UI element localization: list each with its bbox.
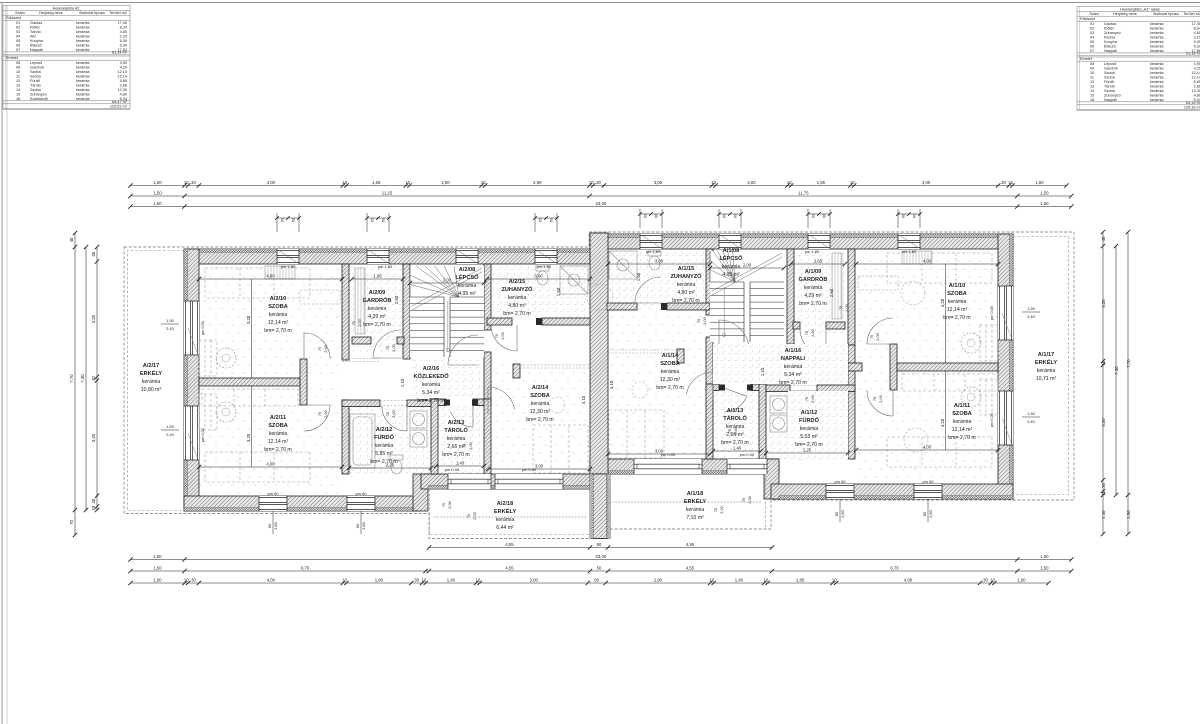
partition tarolo r top right seg	[708, 384, 719, 391]
svg-text:3,00: 3,00	[654, 180, 663, 185]
window top dims 60/60 left	[534, 213, 536, 232]
left dims inner	[96, 247, 98, 510]
svg-text:pm 0,00: pm 0,00	[990, 413, 994, 427]
svg-text:kerámia: kerámia	[76, 66, 90, 70]
svg-text:1,50: 1,50	[1027, 411, 1036, 416]
svg-text:A/2/17: A/2/17	[143, 363, 159, 369]
svg-text:2,00: 2,00	[810, 328, 815, 336]
svg-text:kerámia: kerámia	[531, 401, 550, 407]
window A/2/09 top	[367, 249, 389, 264]
svg-text:12,30 m²: 12,30 m²	[660, 377, 681, 383]
svg-text:Fürdő: Fürdő	[30, 79, 40, 83]
svg-text:bm= 2,70 m: bm= 2,70 m	[503, 311, 531, 317]
svg-text:kerámia: kerámia	[76, 92, 90, 96]
partition szoba10r/szoba11r	[897, 363, 998, 371]
svg-text:2,60: 2,60	[394, 295, 399, 304]
inner dim A/1/14	[608, 453, 710, 455]
svg-text:5,39: 5,39	[1194, 40, 1200, 44]
svg-text:bm= 2,70 m: bm= 2,70 m	[264, 328, 292, 334]
svg-text:SZOBA: SZOBA	[268, 423, 288, 429]
svg-text:09: 09	[16, 66, 20, 70]
svg-text:A/2/08: A/2/08	[459, 267, 475, 273]
partition tarolo left	[431, 399, 438, 474]
window A/1/09 top	[808, 234, 830, 249]
svg-text:A/1/13: A/1/13	[727, 408, 743, 414]
desk A/1/10 right	[980, 325, 998, 361]
svg-text:2,66: 2,66	[120, 84, 127, 88]
svg-text:6,70: 6,70	[890, 565, 899, 570]
door A/2/12 furdo	[406, 406, 408, 431]
svg-text:kerámia: kerámia	[508, 295, 527, 301]
svg-text:kerámia: kerámia	[76, 21, 90, 25]
top dimension row detailed	[131, 185, 1067, 187]
left dims 730	[85, 247, 87, 510]
svg-text:pm 0,00: pm 0,00	[201, 321, 205, 335]
svg-text:kerámia: kerámia	[953, 419, 972, 425]
svg-text:Közlekedő: Közlekedő	[30, 97, 48, 101]
svg-text:01: 01	[16, 21, 20, 25]
svg-text:A/2/12: A/2/12	[376, 427, 392, 433]
svg-text:5,53 m²: 5,53 m²	[800, 434, 818, 440]
svg-text:10: 10	[342, 577, 347, 582]
shower tray A/1/15	[609, 251, 637, 279]
door A/1/15 shower	[635, 302, 661, 304]
svg-text:7,30: 7,30	[80, 374, 85, 383]
svg-text:03: 03	[1090, 31, 1094, 35]
closet A/2/10 top	[265, 266, 295, 279]
svg-text:Helyiséglista „A1” lakás: Helyiséglista „A1” lakás	[1120, 7, 1160, 11]
svg-text:07: 07	[16, 48, 20, 52]
carpet row A/1/11	[902, 374, 998, 391]
inner dim A/1/12	[766, 452, 848, 454]
svg-text:SZOBA: SZOBA	[947, 291, 967, 297]
inner dim A/1/13	[713, 450, 761, 452]
stairs A/1/08	[710, 251, 784, 342]
insulation right	[1009, 234, 1013, 499]
svg-text:Konyha: Konyha	[1104, 40, 1118, 44]
svg-text:5,85: 5,85	[120, 79, 127, 83]
svg-text:Lépcső: Lépcső	[30, 61, 42, 65]
terrace window A/2/14	[495, 474, 563, 489]
exterior wall right	[998, 234, 1013, 499]
inner dim A/2/13	[436, 465, 484, 467]
svg-text:30: 30	[91, 251, 96, 256]
label window A/2/11 left	[166, 424, 175, 437]
svg-text:2,00: 2,00	[875, 332, 880, 340]
svg-text:kerámia: kerámia	[1150, 89, 1164, 93]
svg-text:ZUHANYZÓ: ZUHANYZÓ	[670, 272, 702, 280]
dryer A/2/12	[410, 430, 427, 447]
nappali floor A/1/16	[788, 391, 848, 459]
svg-text:40: 40	[1101, 236, 1106, 241]
svg-text:12: 12	[1090, 80, 1094, 84]
window top dims 60/60 right	[639, 209, 641, 228]
desk A/1/10	[858, 276, 898, 290]
svg-text:pm 1,80: pm 1,80	[537, 264, 552, 269]
svg-text:TÁROLÓ: TÁROLÓ	[723, 414, 747, 422]
svg-text:WC: WC	[30, 34, 37, 38]
svg-text:61,18 m²: 61,18 m²	[1186, 52, 1200, 56]
svg-text:Helyiség neve: Helyiség neve	[39, 11, 63, 15]
ottoman A/1/14	[632, 382, 648, 398]
svg-text:10: 10	[342, 180, 347, 185]
svg-text:4,00: 4,00	[922, 180, 931, 185]
svg-text:2,66: 2,66	[1194, 85, 1200, 89]
partition szoba11r/furdo r	[848, 345, 855, 459]
svg-text:1,50: 1,50	[1040, 190, 1049, 195]
svg-text:15: 15	[1090, 93, 1094, 97]
window top dims 60/60 left	[366, 213, 368, 232]
svg-text:10: 10	[184, 180, 189, 185]
svg-text:kerámia: kerámia	[1150, 35, 1164, 39]
svg-text:Tároló: Tároló	[30, 84, 41, 88]
inner dim A/2/12	[349, 467, 431, 469]
label window A/1/10 right	[1027, 306, 1036, 319]
svg-text:10,80 m²: 10,80 m²	[141, 387, 162, 393]
door A/2/14	[487, 387, 489, 414]
window A/1/10 right wall	[998, 286, 1013, 340]
svg-text:64,15 m²: 64,15 m²	[1186, 101, 1200, 105]
inner dim A/1/15	[608, 263, 710, 265]
terrace outline A/2/17	[128, 251, 185, 511]
svg-text:Szoba: Szoba	[1104, 71, 1116, 75]
svg-text:4,00: 4,00	[923, 444, 932, 449]
svg-text:1,50: 1,50	[1040, 201, 1049, 206]
svg-text:4,95 m²: 4,95 m²	[458, 291, 476, 297]
svg-text:Szám: Szám	[1089, 12, 1099, 16]
svg-text:4,00: 4,00	[904, 577, 913, 582]
window A/2/15 top	[535, 249, 557, 264]
svg-text:NAPPALI: NAPPALI	[781, 356, 806, 362]
svg-text:A/1/10: A/1/10	[949, 283, 965, 289]
svg-text:30: 30	[1001, 180, 1006, 185]
svg-text:pm 1,80: pm 1,80	[646, 249, 661, 254]
svg-text:1,50: 1,50	[153, 190, 162, 195]
bottom dimension row middle	[131, 570, 1072, 572]
partition szoba10/szoba11	[199, 378, 300, 386]
inner dim A/1/09	[791, 263, 845, 265]
svg-text:ZUHANYZÓ: ZUHANYZÓ	[501, 285, 533, 293]
svg-text:Tároló: Tároló	[1104, 85, 1115, 89]
svg-text:2,00: 2,00	[733, 426, 738, 434]
gardrob opening dashes	[342, 358, 380, 360]
exterior wall top left unit	[184, 249, 590, 264]
corridor pier A/2	[300, 359, 307, 405]
svg-text:08: 08	[1090, 62, 1094, 66]
svg-text:ERKÉLY: ERKÉLY	[140, 369, 162, 377]
svg-text:1,50: 1,50	[1040, 565, 1049, 570]
svg-text:5,39: 5,39	[120, 43, 127, 47]
svg-text:SZOBA: SZOBA	[530, 393, 550, 399]
svg-text:bm= 2,70 m: bm= 2,70 m	[799, 301, 827, 307]
svg-text:3,20: 3,20	[91, 314, 96, 323]
dryer A/1/12	[770, 415, 787, 432]
inner dim A/2/14	[488, 468, 590, 470]
svg-text:14: 14	[1090, 89, 1094, 93]
szoba14 opening dashes	[520, 364, 590, 366]
exterior wall bottom left B	[421, 474, 590, 489]
svg-text:8,24: 8,24	[120, 25, 127, 29]
svg-text:Szoba: Szoba	[30, 70, 42, 74]
partition zuh bottom left seg1	[487, 318, 512, 325]
desk A/2/11 left	[199, 394, 217, 430]
inner dim A/1/08	[710, 267, 784, 269]
svg-text:kerámia: kerámia	[142, 379, 161, 385]
svg-text:06: 06	[16, 43, 20, 47]
svg-text:kerámia: kerámia	[76, 30, 90, 34]
svg-text:13: 13	[16, 84, 20, 88]
svg-text:ERKÉLY: ERKÉLY	[684, 497, 706, 505]
svg-text:bm= 2,70 m: bm= 2,70 m	[442, 452, 470, 458]
svg-text:4,10: 4,10	[581, 395, 586, 404]
door A/1/11	[892, 390, 894, 416]
label window A/2/10 left	[166, 318, 175, 331]
svg-text:02: 02	[1090, 26, 1094, 30]
pier szoba14 r	[677, 349, 684, 363]
svg-text:4,29 m²: 4,29 m²	[804, 293, 822, 299]
svg-text:02: 02	[16, 25, 20, 29]
door A/2/11	[304, 404, 330, 406]
svg-text:1,65: 1,65	[372, 180, 381, 185]
svg-text:Zuhanyzó: Zuhanyzó	[1104, 31, 1121, 35]
svg-text:2,15: 2,15	[1194, 35, 1200, 39]
svg-text:16: 16	[16, 97, 20, 101]
left dims outer	[74, 233, 76, 535]
inner dim A/2/15	[487, 278, 590, 280]
furniture row A/1/10	[887, 253, 992, 283]
desk A/1/11 right	[980, 379, 998, 415]
svg-text:FÜRDŐ: FÜRDŐ	[374, 434, 395, 441]
svg-text:kerámia: kerámia	[76, 61, 90, 65]
partition szoba11/furdo	[342, 400, 349, 474]
inner dim A/2/10	[199, 278, 342, 280]
svg-text:kerámia: kerámia	[447, 436, 466, 442]
svg-text:kerámia: kerámia	[269, 431, 288, 437]
svg-text:2,00: 2,00	[747, 180, 756, 185]
window stairs A/1 top	[719, 234, 741, 249]
svg-text:LÉPCSŐ: LÉPCSŐ	[719, 254, 743, 262]
door A/1/12 furdo	[790, 390, 817, 392]
svg-text:A/2/16: A/2/16	[423, 366, 439, 372]
corridor pier A/1	[890, 344, 897, 390]
svg-text:Gardrob: Gardrob	[1104, 67, 1118, 71]
partition tarolo r top left seg	[751, 384, 766, 391]
svg-text:A/1/11: A/1/11	[954, 403, 970, 409]
svg-text:Terület m2: Terület m2	[1183, 12, 1200, 16]
svg-text:1,10: 1,10	[1101, 510, 1106, 519]
door A/2/15 shower	[516, 325, 518, 351]
svg-text:5,39: 5,39	[1194, 44, 1200, 48]
insulation top right	[590, 234, 1013, 238]
svg-text:kerámia: kerámia	[1150, 31, 1164, 35]
svg-text:10: 10	[589, 180, 594, 185]
office chair A/1/10	[961, 333, 981, 353]
svg-text:10: 10	[990, 577, 995, 582]
svg-text:A/1/12: A/1/12	[801, 410, 817, 416]
svg-text:kerámia: kerámia	[76, 97, 90, 101]
partition stair r/tarolo r area	[706, 337, 713, 391]
svg-text:5,34 m²: 5,34 m²	[422, 390, 440, 396]
svg-text:4,80: 4,80	[1194, 93, 1200, 97]
door A/2/13 tarolo	[472, 403, 474, 427]
svg-text:80: 80	[355, 523, 360, 528]
exterior wall left	[184, 249, 199, 511]
svg-text:4,95: 4,95	[120, 61, 127, 65]
svg-text:kerámia: kerámia	[1150, 85, 1164, 89]
svg-text:2,00: 2,00	[447, 500, 452, 508]
svg-text:Lépcső: Lépcső	[1104, 62, 1116, 66]
svg-text:Szoba: Szoba	[30, 75, 42, 79]
svg-text:10: 10	[850, 180, 855, 185]
svg-text:30: 30	[983, 577, 988, 582]
terrace door A/1/13	[727, 459, 767, 474]
svg-text:bm= 2,70 m: bm= 2,70 m	[948, 435, 976, 441]
room list table A2	[3, 6, 130, 110]
svg-text:Burkolat típusa: Burkolat típusa	[79, 11, 105, 15]
exterior wall bottom right C	[771, 484, 1013, 499]
exterior wall left step	[413, 474, 428, 511]
svg-text:Gardrob: Gardrob	[30, 66, 44, 70]
svg-text:2,90: 2,90	[533, 180, 542, 185]
svg-text:kerámia: kerámia	[76, 34, 90, 38]
svg-text:kerámia: kerámia	[722, 264, 741, 270]
partition gardrob r bottom seg1	[793, 322, 800, 329]
svg-text:Zuhanyzó: Zuhanyzó	[1104, 93, 1121, 97]
door jambs	[444, 400, 450, 406]
svg-text:14: 14	[16, 88, 20, 92]
svg-text:12,14 m²: 12,14 m²	[947, 307, 968, 313]
svg-text:pm 60: pm 60	[834, 479, 846, 484]
svg-text:10: 10	[710, 577, 715, 582]
svg-text:4,00: 4,00	[266, 461, 275, 466]
svg-text:kerámia: kerámia	[800, 426, 819, 432]
toilet A/2/12	[390, 455, 403, 474]
svg-text:4,29: 4,29	[1194, 67, 1200, 71]
svg-text:Nappali: Nappali	[1104, 49, 1117, 53]
svg-text:10: 10	[832, 577, 837, 582]
svg-text:11,25: 11,25	[382, 190, 393, 195]
ottoman A/2/14	[549, 397, 565, 413]
partition pier door szoba11r	[848, 363, 862, 371]
svg-text:1,50: 1,50	[1027, 306, 1036, 311]
svg-text:2,00: 2,00	[441, 180, 450, 185]
svg-text:pm 1,80: pm 1,80	[378, 264, 393, 269]
svg-text:bm= 2,70 m: bm= 2,70 m	[417, 398, 445, 404]
svg-text:1,40: 1,40	[456, 460, 465, 465]
furdo r door dashes	[790, 385, 817, 387]
svg-text:61,14 m²: 61,14 m²	[112, 51, 128, 55]
shower cabin A/1/12	[822, 399, 847, 453]
furniture row A/2/10	[205, 268, 310, 298]
svg-text:kerámia: kerámia	[76, 79, 90, 83]
svg-text:11: 11	[16, 75, 20, 79]
svg-text:5,34 m²: 5,34 m²	[784, 372, 802, 378]
svg-text:A/1/08: A/1/08	[723, 248, 739, 254]
svg-text:kerámia: kerámia	[1150, 62, 1164, 66]
svg-text:23,00: 23,00	[596, 554, 607, 559]
svg-text:kerámia: kerámia	[76, 84, 90, 88]
inner dim A/1/11	[856, 449, 998, 451]
svg-text:kerámia: kerámia	[1150, 76, 1164, 80]
svg-text:4,29: 4,29	[120, 66, 127, 70]
svg-text:1,80: 1,80	[273, 521, 278, 530]
svg-text:1,65: 1,65	[373, 273, 382, 278]
svg-text:11: 11	[1090, 76, 1094, 80]
partition furdo top	[342, 400, 380, 407]
svg-text:Konyha: Konyha	[30, 39, 44, 43]
carpet row A/2/11	[202, 389, 298, 406]
partition furdo r top seg2	[766, 385, 790, 392]
szoba14 r opening dashes	[608, 349, 677, 351]
svg-text:12,14 m²: 12,14 m²	[268, 320, 289, 326]
svg-text:4,65: 4,65	[1194, 31, 1200, 35]
svg-text:A/1/15: A/1/15	[678, 266, 694, 272]
svg-text:A/1/16: A/1/16	[785, 348, 801, 354]
svg-text:Szoba: Szoba	[1104, 76, 1116, 80]
svg-text:kerámia: kerámia	[1150, 71, 1164, 75]
svg-text:50: 50	[597, 542, 602, 547]
svg-text:1,40: 1,40	[447, 577, 456, 582]
room list table A1	[1077, 7, 1200, 111]
window A/1/15 top	[640, 234, 662, 249]
svg-text:pm 0,00: pm 0,00	[661, 452, 676, 457]
svg-text:2,00: 2,00	[743, 262, 752, 267]
svg-text:12,14: 12,14	[1191, 76, 1200, 80]
svg-text:07: 07	[1090, 49, 1094, 53]
svg-text:Helyiséglista A2: Helyiséglista A2	[53, 6, 80, 10]
svg-text:10: 10	[711, 180, 716, 185]
furdo door dashes	[380, 400, 407, 402]
svg-text:TÁROLÓ: TÁROLÓ	[444, 426, 468, 434]
svg-text:7,70: 7,70	[1126, 359, 1131, 368]
svg-text:Szoba: Szoba	[1104, 89, 1116, 93]
svg-text:64,47 m²: 64,47 m²	[112, 100, 128, 104]
partition gardrob r/stairs	[787, 249, 794, 344]
window A/2/10 left wall	[184, 301, 199, 355]
svg-text:pm 1,80: pm 1,80	[281, 264, 296, 269]
party terrace insul left	[590, 474, 593, 539]
svg-text:08: 08	[16, 61, 20, 65]
terrace tile edge A/2/18	[434, 516, 586, 518]
terrace tile edge A/1/18	[612, 501, 762, 503]
svg-text:kerámia: kerámia	[1150, 26, 1164, 30]
svg-text:4,00: 4,00	[923, 258, 932, 263]
bottom dimension row terraces	[429, 547, 772, 549]
svg-text:Étkező: Étkező	[1104, 43, 1116, 48]
partition gardrob r bottom seg2	[826, 322, 845, 329]
svg-text:7,70: 7,70	[69, 374, 74, 383]
partition furdo r top	[817, 385, 855, 392]
svg-text:3,00: 3,00	[534, 273, 543, 278]
svg-text:2,00: 2,00	[323, 344, 328, 352]
window top dims 60/60 right	[807, 209, 809, 228]
washing machine A/2/12	[410, 411, 427, 428]
svg-text:kerámia: kerámia	[368, 306, 387, 312]
svg-text:2,00: 2,00	[844, 303, 849, 311]
svg-text:kerámia: kerámia	[677, 282, 696, 288]
svg-text:1,50: 1,50	[1126, 510, 1131, 519]
party wall terrace	[593, 474, 607, 539]
svg-text:A/2/18: A/2/18	[497, 501, 513, 507]
svg-text:30: 30	[596, 180, 601, 185]
svg-text:Tároló: Tároló	[30, 30, 41, 34]
svg-text:4,00: 4,00	[267, 180, 276, 185]
svg-text:30: 30	[91, 498, 96, 503]
svg-text:12,14: 12,14	[117, 70, 127, 74]
svg-text:10: 10	[481, 180, 486, 185]
svg-text:2,25: 2,25	[386, 462, 395, 467]
svg-text:2,00: 2,00	[719, 505, 724, 513]
